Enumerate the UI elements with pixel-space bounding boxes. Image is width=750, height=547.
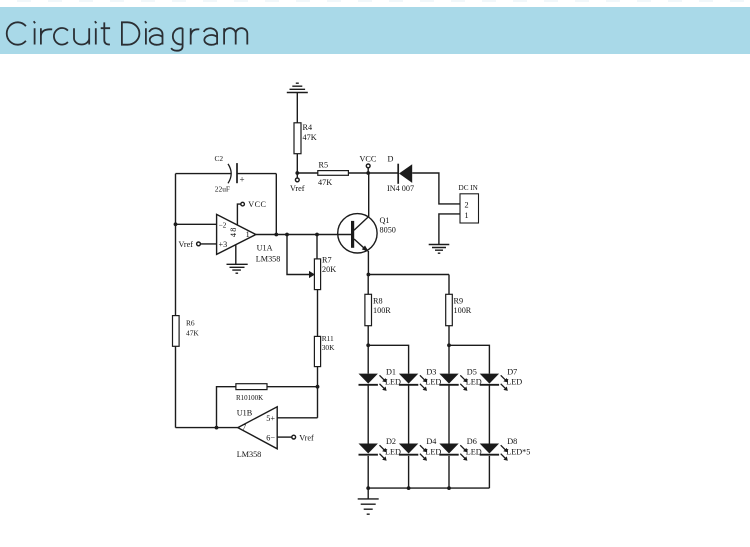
svg-text:R8: R8 [373, 297, 383, 306]
svg-text:100R: 100R [454, 306, 472, 315]
svg-text:48: 48 [229, 227, 238, 238]
svg-text:U1A: U1A [257, 244, 273, 253]
svg-text:D2: D2 [386, 437, 396, 446]
svg-text:LED: LED [385, 378, 401, 387]
svg-text:LED: LED [425, 378, 441, 387]
svg-text:DC IN: DC IN [459, 184, 479, 192]
svg-text:Vref: Vref [179, 240, 194, 249]
svg-text:1: 1 [465, 211, 469, 220]
svg-text:100R: 100R [373, 306, 391, 315]
svg-text:LM358: LM358 [256, 255, 281, 264]
svg-text:2: 2 [465, 201, 469, 210]
svg-text:7: 7 [242, 423, 246, 432]
svg-text:Vref: Vref [299, 433, 314, 442]
svg-text:R6: R6 [186, 319, 195, 328]
svg-text:Vref: Vref [290, 184, 305, 193]
svg-text:47K: 47K [186, 329, 199, 338]
svg-text:IN4 007: IN4 007 [387, 184, 414, 193]
svg-text:8050: 8050 [380, 226, 396, 235]
svg-text:C2: C2 [215, 154, 224, 163]
svg-text:+: + [240, 175, 245, 185]
svg-text:D3: D3 [426, 367, 436, 376]
svg-text:+3: +3 [219, 240, 228, 249]
svg-text:LED: LED [466, 378, 482, 387]
svg-text:D1: D1 [386, 367, 396, 376]
svg-text:22uF: 22uF [215, 185, 230, 194]
svg-text:R11: R11 [322, 334, 334, 343]
svg-text:R10100K: R10100K [236, 394, 263, 402]
svg-text:R5: R5 [319, 161, 329, 170]
svg-text:1: 1 [246, 230, 250, 239]
svg-text:LED: LED [466, 448, 482, 457]
svg-text:6−: 6− [266, 433, 275, 442]
svg-text:−2: −2 [219, 220, 227, 229]
svg-text:LED: LED [385, 448, 401, 457]
svg-text:LM358: LM358 [237, 450, 262, 459]
svg-text:D5: D5 [467, 367, 477, 376]
svg-text:D6: D6 [467, 437, 477, 446]
svg-text:VCC: VCC [248, 200, 266, 209]
svg-text:20K: 20K [322, 265, 336, 274]
svg-text:LED: LED [506, 378, 522, 387]
svg-text:R4: R4 [303, 123, 313, 132]
svg-text:D4: D4 [426, 437, 436, 446]
svg-text:D7: D7 [507, 367, 517, 376]
svg-text:5+: 5+ [266, 414, 275, 423]
svg-text:LED: LED [425, 448, 441, 457]
svg-text:Q1: Q1 [380, 216, 390, 225]
svg-text:R7: R7 [322, 256, 332, 265]
svg-text:R9: R9 [454, 297, 464, 306]
svg-text:47K: 47K [318, 178, 332, 187]
svg-text:U1B: U1B [237, 409, 253, 418]
svg-text:LED*5: LED*5 [506, 448, 530, 457]
svg-text:30K: 30K [322, 343, 335, 352]
svg-text:D: D [388, 155, 394, 164]
svg-text:47K: 47K [303, 133, 317, 142]
svg-text:VCC: VCC [360, 155, 377, 164]
svg-text:D8: D8 [507, 437, 517, 446]
